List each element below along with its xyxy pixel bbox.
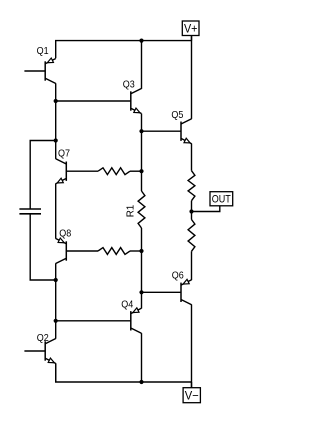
wire: Q1 base stub — [24, 70, 45, 72]
wire: top rail to Q3 collector — [141, 41, 143, 89]
wire: R1 bottom to Q4 emitter — [141, 228, 143, 309]
transistor Q3 — [123, 80, 142, 114]
resistor: bottom bias resistor — [98, 248, 130, 255]
junction: Q2 collector / Q4 base — [54, 319, 58, 323]
transistor Q8 — [56, 229, 72, 264]
wire: left branch bottom (capacitor to Q8 collector node) — [30, 214, 56, 280]
resistor: upper output emitter resistor — [188, 171, 195, 201]
resistor: lower output emitter resistor — [188, 220, 195, 252]
svg-text:Q4: Q4 — [121, 300, 133, 311]
wire: OUT node to OUT port — [192, 206, 220, 212]
wire: lower output resistor to Q6 emitter — [191, 251, 193, 280]
power port V- — [183, 382, 200, 403]
svg-text:R1: R1 — [126, 204, 137, 217]
wire: Q2 base stub — [24, 350, 45, 352]
junction: center column / top bias resistor — [139, 169, 143, 173]
junction: bottom rail / center column — [139, 380, 143, 384]
wire: V+ port to Q5 collector — [191, 36, 193, 119]
junction: top rail / center column — [139, 39, 143, 43]
junction: left column / capacitor branch bottom — [54, 278, 58, 282]
wire: node A - Q1 collector to Q3 base — [56, 100, 131, 102]
transistor Q6 — [172, 271, 192, 305]
junction: left column / capacitor branch top — [54, 138, 58, 142]
wire: V- bottom rail — [56, 363, 192, 382]
transistor Q7 — [56, 148, 71, 183]
wire: upper output resistor to lower output resistor (OUT node) — [191, 201, 193, 220]
junction: Q3 emitter / Q5 base — [139, 129, 143, 133]
junction: Q1 collector / Q3 base — [54, 99, 58, 103]
wire: V+ top rail — [56, 41, 192, 59]
svg-text:OUT: OUT — [212, 194, 231, 206]
svg-text:V+: V+ — [184, 22, 198, 36]
transistor Q4 — [121, 300, 141, 334]
capacitor C1 — [19, 209, 41, 214]
svg-text:V−: V− — [185, 389, 199, 403]
wire: Q5 emitter to upper output resistor — [191, 144, 193, 171]
wire: top bias resistor to center column — [130, 170, 142, 172]
power port V+ — [182, 21, 199, 41]
wire: Q3 emitter to R1 top — [141, 114, 143, 192]
svg-text:Q6: Q6 — [172, 271, 184, 282]
wire: left column Q1 collector to Q7 collector — [55, 83, 57, 159]
resistor: top bias resistor — [98, 168, 130, 175]
wire: Q4 emitter node to Q6 base — [142, 291, 182, 293]
wire: left branch top (to capacitor) — [30, 141, 56, 210]
transistor Q1 — [37, 46, 56, 84]
wire: left column Q7 emitter to Q8 emitter — [55, 184, 57, 239]
wire: Q8 base to bottom bias resistor — [66, 250, 98, 252]
svg-text:Q5: Q5 — [171, 110, 183, 121]
wire: Q2 collector node to Q4 base — [56, 320, 131, 322]
junction: center column / Q6 base — [139, 290, 143, 294]
svg-text:Q3: Q3 — [123, 80, 135, 91]
wire: Q7 base to top bias resistor — [66, 170, 98, 172]
transistor Q5 — [171, 110, 191, 144]
junction: center column / bottom bias resistor — [139, 249, 143, 253]
svg-text:Q1: Q1 — [37, 46, 49, 57]
wire: left column Q8 collector to Q2 collector — [55, 263, 57, 338]
transistor Q2 — [37, 333, 56, 363]
output port OUT — [210, 192, 233, 206]
wire: Q6 collector to V- port — [191, 305, 193, 388]
resistor R1 — [126, 191, 145, 228]
wire: Q3 emitter node to Q5 base — [142, 130, 182, 132]
svg-text:Q2: Q2 — [37, 333, 49, 344]
wire: bottom bias resistor to center column — [130, 250, 142, 252]
svg-text:Q8: Q8 — [59, 229, 71, 240]
svg-text:Q7: Q7 — [58, 148, 70, 159]
junction: OUT node — [189, 209, 193, 213]
wire: Q4 collector to bottom rail — [141, 333, 143, 382]
wire: Q2 emitter to bottom rail — [55, 363, 57, 382]
